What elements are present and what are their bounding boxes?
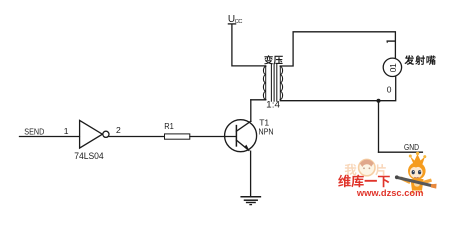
wire transducer bottom bbox=[379, 77, 396, 101]
transformer core bbox=[270, 64, 272, 102]
svg-text:1:4: 1:4 bbox=[266, 99, 280, 110]
svg-text:0: 0 bbox=[387, 85, 392, 95]
watermark 维库一下 bbox=[338, 175, 390, 188]
wire Ucc down and right to transformer bbox=[232, 25, 266, 66]
svg-text:GND: GND bbox=[404, 142, 419, 152]
pin 1 tick bbox=[387, 40, 394, 42]
svg-text:1: 1 bbox=[64, 126, 69, 136]
watermark mascot bbox=[395, 152, 437, 194]
svg-text:SEND: SEND bbox=[24, 126, 44, 136]
watermark 我的图片 faint bbox=[345, 159, 386, 175]
resistor R1 bbox=[165, 134, 190, 139]
wire collector up bbox=[250, 100, 252, 122]
transducer 发射嘴 bbox=[383, 58, 401, 76]
transistor Q1 T1 NPN bbox=[225, 120, 257, 152]
svg-text:01: 01 bbox=[388, 63, 398, 72]
wire input bbox=[20, 136, 80, 138]
svg-text:NPN: NPN bbox=[259, 126, 274, 136]
transformer secondary winding bbox=[279, 66, 281, 100]
op-amp U1 inverter 74LS04 bbox=[80, 120, 103, 148]
ground bbox=[241, 196, 260, 198]
svg-text:74LS04: 74LS04 bbox=[74, 151, 104, 161]
transformer primary winding bbox=[265, 66, 267, 100]
wire inverter to R1 bbox=[109, 136, 164, 138]
svg-text:www.dzsc.com: www.dzsc.com bbox=[356, 188, 423, 199]
svg-text:R1: R1 bbox=[164, 121, 174, 131]
svg-text:2: 2 bbox=[116, 125, 121, 135]
wire R1 to base bbox=[190, 136, 236, 138]
wire secondary bottom bbox=[280, 99, 378, 102]
wire secondary top to transducer bbox=[280, 32, 395, 66]
wire emitter down bbox=[250, 151, 252, 195]
wire junction down to GND rail bbox=[378, 101, 380, 153]
junction bbox=[377, 99, 381, 103]
wire primary bottom to collector bbox=[251, 99, 266, 101]
GND rail bbox=[379, 151, 423, 153]
transformer label 变压 bbox=[264, 55, 283, 64]
